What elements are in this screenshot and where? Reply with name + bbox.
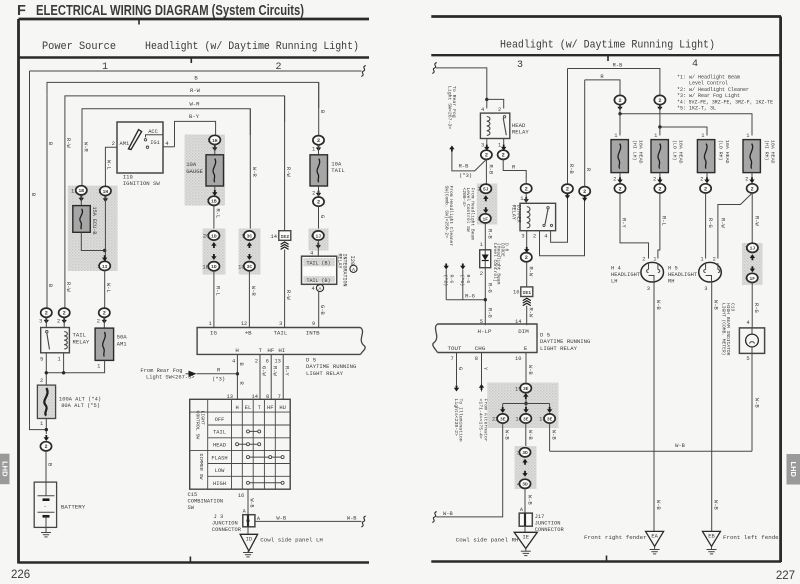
wire label W-R — [251, 167, 257, 177]
svg-text:2: 2 — [44, 444, 47, 450]
svg-text:EL: EL — [245, 405, 251, 411]
svg-text:IGNITION SW: IGNITION SW — [123, 180, 161, 187]
dimmer relay switch — [547, 207, 549, 209]
connector arrow below TAIL fuse — [316, 191, 321, 197]
tail relay coil — [64, 332, 67, 350]
diode symbol — [482, 255, 489, 261]
svg-text:EB: EB — [708, 534, 715, 540]
diode D8 box — [480, 250, 491, 268]
svg-text:W-B: W-B — [551, 430, 557, 440]
svg-text:R-B: R-B — [487, 165, 493, 175]
svg-text:INTB: INTB — [306, 330, 320, 337]
svg-text:H: H — [235, 347, 239, 354]
svg-text:Front left fender: Front left fender — [723, 534, 782, 541]
svg-text:+B: +B — [245, 330, 252, 337]
connector arrow below — [565, 193, 570, 199]
integration relay designation I20 A — [349, 256, 355, 266]
wire AM1 fuse to junction — [46, 360, 104, 372]
svg-text:13: 13 — [274, 358, 280, 364]
svg-text:W-B: W-B — [276, 515, 286, 521]
svg-text:HU: HU — [279, 405, 285, 411]
svg-text:2: 2 — [704, 186, 707, 192]
svg-text:-: - — [43, 504, 46, 510]
svg-text:R-W: R-W — [285, 290, 291, 300]
svg-text:2: 2 — [642, 257, 645, 263]
text To Illumination Lights<238-2> — [453, 399, 464, 442]
svg-text:G: G — [319, 215, 325, 218]
text From Headlight Cleaner SW(Comb. SW)<250-2> — [444, 186, 454, 247]
connector arrow below — [316, 145, 321, 151]
ignition switch ACC contact — [144, 139, 146, 141]
svg-text:RELAY: RELAY — [512, 129, 529, 136]
svg-text:R-B: R-B — [568, 164, 574, 174]
wire R-B up to fuse feed — [567, 69, 569, 185]
svg-text:3C: 3C — [247, 264, 253, 270]
contact HEAD row H-EL-T — [237, 443, 259, 445]
wire label R-G — [707, 218, 713, 228]
wire label W-B — [754, 398, 760, 408]
svg-text:Light SW<267-3>: Light SW<267-3> — [146, 374, 195, 380]
svg-text:W-B: W-B — [655, 500, 661, 510]
fuse block shaded area (GAUGE) — [185, 135, 226, 206]
svg-text:15A ECU-B: 15A ECU-B — [91, 207, 97, 235]
svg-text:J17: J17 — [535, 514, 545, 520]
wire tail relay pin5 down — [45, 353, 47, 385]
svg-text:W-B: W-B — [675, 443, 685, 449]
svg-text:W-B: W-B — [527, 365, 533, 375]
svg-text:6: 6 — [266, 358, 269, 364]
svg-text:ACC: ACC — [148, 129, 158, 135]
svg-text:3D: 3D — [522, 450, 528, 456]
svg-text:From Rear Fog: From Rear Fog — [140, 368, 182, 374]
DRL relay bus strip (right page) — [438, 324, 538, 353]
contact HIGH row EL-HU — [248, 482, 283, 484]
fuse 10A GAUGE — [214, 145, 216, 155]
svg-text:TAIL (B): TAIL (B) — [306, 261, 330, 267]
ground symbol IE — [525, 549, 527, 552]
wire label W-B — [655, 500, 661, 510]
svg-text:2: 2 — [112, 140, 115, 147]
wire label R-G above bus — [486, 308, 492, 318]
connector arrow — [524, 197, 529, 203]
svg-text:W-B: W-B — [655, 300, 661, 310]
indicator lamp symbol — [746, 334, 759, 347]
dimmer relay box — [520, 203, 556, 230]
left page top border tick — [138, 19, 140, 25]
wire label R-W — [528, 267, 534, 277]
svg-text:1: 1 — [208, 321, 211, 327]
page continuation squiggle B wire (from page 226) — [432, 63, 436, 74]
right page border frame — [431, 15, 781, 18]
svg-text:1: 1 — [97, 363, 100, 369]
wire J3 to ground — [247, 527, 249, 535]
wire label B vertical — [319, 110, 325, 114]
wire R-W nested horizontal — [65, 96, 285, 122]
fuse 10A TAIL — [310, 155, 328, 186]
svg-text:FLASH: FLASH — [211, 455, 227, 461]
svg-text:*3: w/ Rear Fog Light: *3: w/ Rear Fog Light — [677, 93, 740, 99]
svg-text:RELAY: RELAY — [73, 338, 90, 345]
wire dimmer pin 2 to connector — [540, 196, 585, 256]
svg-text:1: 1 — [480, 242, 483, 248]
svg-text:CONNECTOR: CONNECTOR — [535, 527, 565, 533]
svg-text:R-L: R-L — [214, 209, 220, 219]
wire label B — [238, 363, 244, 367]
svg-text:226: 226 — [11, 569, 30, 581]
svg-text:2: 2 — [498, 107, 501, 113]
wire label W-R — [250, 286, 256, 296]
wire G-B from integration relay to bus INTB — [318, 284, 320, 286]
wire W-B from 3D to J17 — [524, 488, 526, 513]
svg-text:HF: HF — [267, 405, 273, 411]
svg-text:W-R: W-R — [251, 167, 257, 177]
svg-text:2: 2 — [618, 186, 621, 192]
connector arrow to 3E pin 16 — [523, 407, 528, 413]
svg-text:EA: EA — [651, 534, 658, 540]
battery ground — [45, 527, 47, 532]
connector arrow above 1I — [102, 255, 107, 261]
svg-text:LOW: LOW — [215, 468, 225, 474]
svg-text:R-W: R-W — [720, 218, 726, 228]
svg-text:R-G: R-G — [486, 308, 492, 318]
svg-text:4: 4 — [481, 107, 484, 113]
ignition switch I19 box — [117, 122, 163, 173]
shaded area connector 5J/1F — [477, 184, 498, 225]
wire W-R nested horizontal — [82, 109, 250, 135]
connector arrow below 1H — [103, 196, 108, 202]
wire label W-B — [527, 430, 533, 440]
connector 2 below TAIL fuse — [313, 197, 324, 206]
svg-text:2: 2 — [97, 318, 100, 324]
svg-text:3E: 3E — [523, 416, 529, 422]
svg-text:R-W: R-W — [285, 167, 291, 177]
connector 2 on R-B to fuses — [562, 184, 573, 193]
wire R-G diode to junction — [484, 268, 486, 326]
svg-text:JUNCTION: JUNCTION — [535, 521, 561, 527]
wire G from TAIL fuse to 1J — [318, 206, 320, 231]
svg-text:B-Y: B-Y — [189, 113, 200, 120]
wire label R-L — [214, 209, 220, 219]
svg-text:2: 2 — [566, 187, 569, 193]
svg-text:R-Y: R-Y — [284, 366, 290, 376]
wire label W-B — [713, 300, 719, 310]
connector arrow below 1B — [79, 196, 84, 202]
chevron arrows below IE1 — [523, 298, 531, 300]
wire R-B from 1F to diode — [484, 223, 486, 250]
ground triangle EB front left fender — [703, 531, 721, 546]
svg-text:LHD: LHD — [789, 461, 798, 477]
svg-text:3: 3 — [279, 321, 282, 327]
svg-text:W-B: W-B — [713, 300, 719, 310]
battery plates — [38, 495, 55, 497]
wire R-G from 1F to indicator — [751, 283, 753, 328]
wire W-B from LH headlight to ground EA — [653, 282, 655, 531]
svg-text:F: F — [17, 3, 26, 19]
svg-text:R-W: R-W — [528, 267, 534, 277]
svg-text:4: 4 — [544, 234, 547, 240]
svg-text:G: G — [457, 367, 463, 370]
combination switch C15 table frame — [190, 399, 291, 489]
3E junction distribution — [525, 399, 527, 404]
svg-text:3: 3 — [647, 286, 650, 292]
svg-text:R-G: R-G — [486, 283, 492, 293]
wire label R-W — [285, 290, 291, 300]
fusible link 100A ALT — [37, 385, 55, 418]
connector arrow below — [102, 318, 107, 324]
wire Y from CHG — [481, 353, 483, 392]
svg-text:To IlluminationLights<238-2>: To IlluminationLights<238-2> — [453, 399, 464, 442]
connector 2 on R to fuses — [579, 187, 590, 196]
svg-text:W-B: W-B — [754, 398, 760, 408]
svg-text:1J: 1J — [316, 233, 322, 239]
svg-text:12: 12 — [241, 321, 247, 327]
svg-text:5: 5 — [746, 356, 749, 362]
chevron arrows below IE2 — [281, 242, 289, 244]
right page section divider tick — [607, 55, 609, 61]
left page bottom border tick — [189, 557, 191, 563]
svg-text:2: 2 — [480, 271, 483, 277]
ignition switch pin 4 wire — [163, 146, 175, 148]
svg-text:H 5: H 5 — [668, 265, 678, 271]
wire label Y — [482, 367, 488, 371]
battery box — [34, 482, 56, 527]
wire W-R right segment down — [249, 109, 251, 231]
wire R-B from head relay pin 3 down — [485, 159, 487, 184]
LHD tab left — [0, 454, 10, 485]
svg-text:1: 1 — [614, 133, 617, 139]
wire R from head relay pin 1 to dimmer relay pin 1 — [503, 159, 526, 184]
svg-text:TAIL: TAIL — [213, 430, 226, 436]
svg-text:W-L: W-L — [105, 283, 111, 293]
wire R horizontal to HI fuses — [585, 80, 620, 96]
svg-text:2: 2 — [583, 189, 586, 195]
ground triangle ID cowl side panel LH — [240, 534, 258, 551]
svg-text:4: 4 — [232, 358, 235, 364]
wire label G — [319, 215, 325, 218]
svg-text:16: 16 — [238, 493, 244, 499]
wire branch to head relay pin 2 — [487, 99, 504, 108]
head relay coil — [487, 117, 490, 136]
svg-text:7: 7 — [450, 356, 453, 362]
wire B nested horizontal — [47, 82, 319, 108]
svg-text:R-L: R-L — [660, 216, 666, 226]
wire W-L down to AM1 fuse connector — [104, 271, 106, 309]
wire label R-W — [65, 138, 71, 148]
head relay switch — [503, 116, 505, 118]
wire W-B from 3E-13 to indicator ground line — [549, 423, 551, 451]
svg-text:W-B: W-B — [347, 515, 357, 521]
connector 2 below dimmer pin 3 — [521, 253, 532, 262]
connector 2 on LO feed — [654, 95, 665, 104]
wire 1B to ECU-B fuse — [80, 195, 82, 206]
svg-text:ELECTRICAL WIRING DIAGRAM (Sys: ELECTRICAL WIRING DIAGRAM (System Circui… — [36, 3, 304, 19]
wire R-W feeder down to tail relay pin 2 — [64, 109, 66, 308]
svg-text:TAIL (B): TAIL (B) — [306, 278, 330, 284]
svg-text:LHD: LHD — [0, 461, 9, 477]
svg-text:R-Y: R-Y — [621, 218, 627, 228]
page continuation squiggle right of wire B — [361, 66, 365, 77]
svg-text:1H: 1H — [212, 138, 218, 144]
svg-text:R-W: R-W — [65, 138, 71, 148]
svg-text:IG: IG — [210, 330, 217, 337]
svg-text:2: 2 — [751, 186, 754, 192]
svg-text:(*3): (*3) — [459, 173, 472, 179]
wire label G-W — [260, 366, 266, 376]
connector arrow below pin 3 — [486, 139, 488, 151]
wire W-B from 3E-22 to page continuation — [436, 423, 503, 517]
junction connector J3 box — [243, 515, 255, 527]
svg-text:HEADLIGHT: HEADLIGHT — [611, 272, 641, 278]
fuse block shaded area (ECU-B) — [68, 186, 118, 271]
left page header rule — [19, 56, 370, 58]
svg-text:2: 2 — [45, 311, 48, 317]
svg-text:Front right fender: Front right fender — [584, 534, 647, 541]
svg-text:1H: 1H — [103, 189, 109, 195]
connector 2 on HI feed — [614, 95, 625, 104]
wire label R-L — [214, 286, 220, 296]
svg-text:SW: SW — [188, 505, 195, 511]
wire label W-B — [655, 300, 661, 310]
connector arrow below 1J — [316, 243, 321, 249]
headlight H5 RH bulb — [699, 262, 722, 282]
svg-text:R-G: R-G — [707, 218, 713, 228]
wire W-R from 3C to bus +B — [248, 271, 250, 328]
connector arrow — [62, 318, 67, 324]
wire B-Y from ignition switch to GAUGE fuse — [175, 121, 216, 146]
svg-text:W-B: W-B — [527, 430, 533, 440]
svg-text:10: 10 — [515, 356, 521, 362]
svg-text:4: 4 — [746, 320, 749, 326]
svg-text:Cowl side panel RH: Cowl side panel RH — [456, 536, 519, 543]
wire label B vertical — [30, 193, 36, 197]
svg-text:From Headlight CleanerSW(Comb.: From Headlight CleanerSW(Comb. SW)<250-2… — [444, 186, 454, 247]
text D 8 DIODE (Headlight Beam Level Control) — [492, 243, 510, 285]
wire R-L from 1D to bus IG — [213, 271, 215, 328]
connector arrows between 3C pair — [247, 242, 252, 248]
wire R-W to IE1 — [526, 262, 528, 287]
wire W-B from RH headlight to ground EB — [711, 282, 713, 531]
wire W-L from ignition switch AM1 pin 2 — [105, 147, 117, 186]
svg-text:2: 2 — [658, 98, 661, 104]
wire G-W from bus T to combination switch — [259, 354, 261, 399]
wire R up to fuse feed — [584, 80, 586, 187]
svg-text:1F: 1F — [749, 276, 755, 282]
svg-text:W-B: W-B — [504, 430, 510, 440]
svg-text:2: 2 — [57, 318, 60, 324]
wire label B — [47, 142, 53, 146]
svg-text:1: 1 — [701, 133, 704, 139]
wire ECU-B fuse output — [81, 232, 104, 250]
svg-text:T: T — [259, 347, 263, 354]
svg-text:(*1): (*1) — [459, 275, 465, 287]
svg-text:R-B: R-B — [486, 229, 492, 239]
junction line to ALT fuse — [45, 371, 48, 374]
wire W-B from J3 to page 227 — [255, 520, 362, 522]
left page section divider tick — [190, 58, 192, 64]
svg-text:9: 9 — [312, 321, 315, 327]
svg-text:OFF: OFF — [215, 417, 225, 423]
wire label R-W — [65, 282, 71, 292]
wire R-W from bus HF to combination switch — [270, 354, 272, 399]
svg-text:HEAD: HEAD — [213, 442, 226, 448]
connector arrow to 3E pin 13 — [547, 407, 552, 413]
wire label W-B — [551, 430, 557, 440]
connector 2 above AM1 fuse — [99, 308, 110, 317]
junction dot ECU-B/W-L — [103, 249, 106, 252]
svg-text:2: 2 — [40, 378, 43, 384]
incoming arrow from alternator — [479, 384, 484, 390]
wire R-L to LH headlight pin 1 — [658, 193, 660, 259]
shaded area connectors 3D — [515, 446, 537, 489]
wire W-B from combination switch to J3 — [247, 489, 249, 515]
dimmer relay coil — [527, 207, 530, 229]
label DIMMER SW — [198, 454, 204, 480]
wire label W-B — [504, 430, 510, 440]
wire label R-G — [753, 303, 759, 313]
wire H from bus to combination switch — [236, 354, 238, 399]
ground symbol EA — [654, 546, 656, 549]
svg-text:R-W: R-W — [272, 366, 278, 376]
page continuation squiggle W-B left — [432, 512, 436, 523]
svg-text:G-B: G-B — [319, 305, 325, 315]
wire label R-G (*2) — [443, 275, 449, 287]
svg-text:W-R: W-R — [82, 142, 88, 152]
svg-text:DIMMER SW: DIMMER SW — [198, 454, 204, 480]
svg-text:1D: 1D — [211, 233, 217, 239]
wire label W-B — [249, 499, 255, 508]
shaded area connector 1J — [309, 229, 329, 251]
DRL relay bus strip (left page) — [197, 328, 360, 355]
tail relay switch — [46, 331, 48, 333]
svg-text:5J: 5J — [483, 187, 489, 193]
svg-text:H 4: H 4 — [611, 265, 621, 271]
svg-text:1: 1 — [40, 421, 43, 427]
tail relay box — [41, 328, 70, 353]
svg-text:H-LP: H-LP — [478, 328, 492, 335]
ignition switch ACC bracket — [146, 135, 164, 138]
fuse 50A AM1 — [103, 317, 105, 328]
svg-text:8: 8 — [475, 356, 478, 362]
HI feed junction — [620, 114, 752, 136]
svg-text:1B: 1B — [211, 199, 217, 205]
page continuation squiggle W-B — [361, 516, 365, 527]
incoming arrow from headlight cleaner SW (*2) — [445, 270, 447, 300]
contact TAIL row EL-T — [248, 430, 259, 432]
svg-text:2: 2 — [525, 255, 528, 261]
wire W-B horizontal to 3E — [550, 450, 752, 452]
label LIGHT CONTROL SW — [194, 411, 205, 440]
svg-text:3C: 3C — [247, 233, 253, 239]
wire label R-W — [272, 366, 278, 376]
wire W-B from 3E-16 down — [525, 423, 527, 448]
svg-text:R-W: R-W — [190, 87, 201, 94]
svg-text:DIM: DIM — [518, 328, 529, 335]
svg-text:W-R: W-R — [250, 286, 256, 296]
connector arrows between 1J and 1F — [750, 254, 755, 260]
right page bottom border tick — [606, 556, 608, 562]
svg-text:1: 1 — [58, 356, 61, 362]
shaded area connectors 3C — [239, 229, 261, 275]
svg-text:Cowl side panel LH: Cowl side panel LH — [260, 537, 323, 544]
text To Rear Fog Light SW<267-3> (vertical) — [447, 86, 457, 129]
svg-text:CONNECTOR: CONNECTOR — [212, 527, 242, 533]
svg-text:HI: HI — [278, 347, 285, 354]
svg-text:4: 4 — [692, 59, 698, 70]
wire R-L from 1B to 1D — [213, 205, 215, 231]
connector arrow — [617, 105, 622, 111]
svg-text:2: 2 — [700, 176, 703, 182]
svg-text:RH: RH — [668, 278, 674, 284]
